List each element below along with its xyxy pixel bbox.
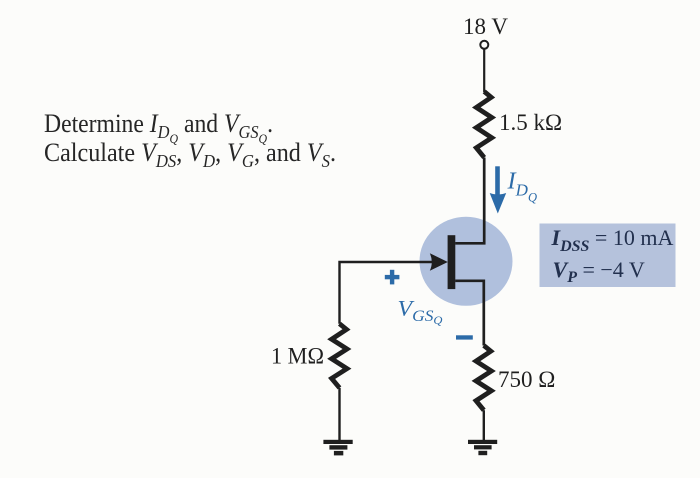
JFET channel bar xyxy=(448,235,456,289)
svg-text:1 MΩ: 1 MΩ xyxy=(271,344,324,369)
JFET body circle (shaded) xyxy=(420,217,513,306)
JFET source lead and wire down to RS xyxy=(455,281,484,346)
wire RS to ground xyxy=(483,410,485,441)
wire from terminal to RD xyxy=(483,49,485,92)
gate wire from left corner to arrow xyxy=(340,262,434,324)
svg-text:18 V: 18 V xyxy=(463,14,508,39)
current arrow IDQ (blue) xyxy=(495,166,500,196)
supply terminal circle xyxy=(480,41,488,49)
ground symbol right xyxy=(468,440,497,444)
parameter box background xyxy=(540,224,676,288)
ground symbol left xyxy=(323,440,352,444)
resistor RS 750 Ohm zigzag xyxy=(476,346,491,411)
wire RD to drain (vertical) and drain lead into JFET xyxy=(455,158,484,244)
svg-text:1.5 kΩ: 1.5 kΩ xyxy=(499,110,562,135)
minus sign (blue) xyxy=(456,335,473,339)
plus sign (blue) xyxy=(385,275,400,279)
svg-text:750 Ω: 750 Ω xyxy=(498,367,555,392)
svg-text:Calculate VDS, VD, VG, and VS.: Calculate VDS, VD, VG, and VS. xyxy=(44,138,336,171)
resistor RG 1 MOhm zigzag xyxy=(332,324,347,388)
svg-text:VP = −4 V: VP = −4 V xyxy=(553,257,645,286)
wire RG to ground xyxy=(338,388,340,441)
JFET gate arrow xyxy=(430,253,448,271)
resistor RD 1.5 kOhm zigzag xyxy=(476,92,492,158)
